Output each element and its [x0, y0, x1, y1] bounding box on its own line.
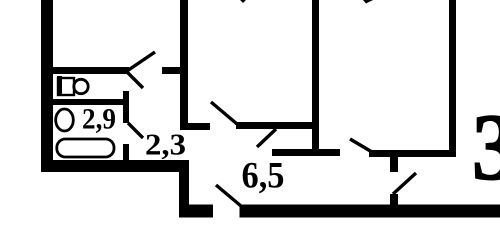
svg-text:3: 3 [472, 94, 500, 200]
svg-text:2,3: 2,3 [145, 127, 186, 162]
svg-text:6,5: 6,5 [242, 156, 285, 197]
wall: bottom of bathroom block (horizontal thick) [41, 160, 189, 172]
wall: bottom outer right segment [240, 205, 500, 218]
door leaf: corridor door upper [127, 52, 155, 71]
fixture: bathtub [57, 139, 114, 157]
wall: WC bottom thin horizontal [50, 99, 125, 105]
wall: door stub upper (balcony door) [390, 156, 398, 172]
wall: corridor top left segment [53, 67, 129, 74]
door leaf: entrance door [216, 185, 241, 206]
wall: corridor top right segment [162, 67, 188, 74]
fixture: toilet tank [58, 78, 74, 95]
wall: horizontal under right room [369, 150, 456, 157]
wall: left outer vertical [41, 0, 53, 172]
wall: step vertical between 2,3 hall and 6,5 hall [179, 160, 189, 217]
wall: right outer vertical [449, 0, 456, 157]
door leaf: balcony door [393, 173, 416, 194]
label: comma fragment top right room [363, 0, 373, 4]
door leaf: right room door [350, 139, 372, 152]
fixture: toilet tank thick left edge [57, 76, 62, 96]
wall: middle-right vertical [312, 0, 319, 149]
wall: bottom outer left segment [179, 205, 213, 218]
wall: bathroom divider upper segment [123, 91, 129, 123]
svg-text:2,9: 2,9 [82, 103, 116, 136]
fixture: sink [56, 109, 74, 131]
door leaf: middle room door [211, 102, 237, 124]
door leaf: niche door [257, 129, 276, 147]
wall: middle vertical (room divider) [180, 0, 188, 130]
wall: stub right of middle vertical [188, 123, 210, 130]
wall: thick horizontal top of 6,5 hall [272, 149, 340, 156]
door leaf: bathroom door [128, 123, 143, 138]
door leaf: corridor door lower [127, 72, 143, 88]
wall: bathroom divider lower segment [123, 144, 129, 161]
wall: thin horizontal under middle room [236, 122, 313, 129]
wall: door stub lower (balcony door) [390, 194, 398, 205]
label: comma fragment top left room [240, 0, 246, 3]
fixture: toilet bowl [74, 79, 88, 93]
